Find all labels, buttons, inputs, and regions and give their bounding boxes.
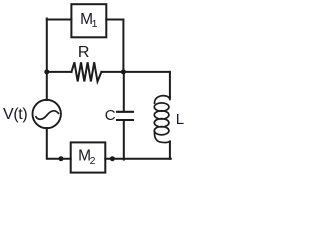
inductor L coil loop 2 [154,111,169,119]
wire bottom rail right (M2 right pin to bottom right corner) [105,158,171,160]
node B junction dot (resistor / M1 / capacitor cross) [121,69,126,74]
wire right rail upper (corner down to inductor top) [169,72,171,99]
capacitor C top plate [117,111,133,113]
inductor L bottom hook (last loop sweeping back to wire) [154,132,169,143]
wire M1 right pin to corner and down to junction node B [106,20,123,72]
node A junction dot (left rail / resistor tee) [44,69,49,74]
meter box M1 [71,4,106,37]
source V(t) sine wave [36,111,58,119]
capacitor C bottom plate [117,119,133,121]
svg-text:V(t): V(t) [3,106,27,123]
svg-text:M2: M2 [78,147,96,167]
inductor L coil loop 1 [154,103,169,111]
wire capacitor branch upper (node B down to top plate) [123,72,125,111]
svg-text:R: R [78,44,90,61]
wire top rail left (node top to M1 left pin) [47,19,72,21]
wire right rail lower (inductor bottom to bottom right corner) [169,142,171,159]
node C junction dot (bottom rail left of M2) [59,156,64,161]
inductor L coil loop 3 [154,119,169,127]
wire middle rail right (resistor right lead through node B to right corner) [101,71,169,73]
svg-text:C: C [105,107,116,124]
resistor R zigzag body [72,62,102,81]
wire capacitor branch lower (bottom plate down to bottom rail) [123,120,125,159]
svg-text:M1: M1 [80,11,98,30]
inductor L top hook (wire curling into first loop) [154,96,169,104]
meter box M2 [71,142,106,172]
inductor L coil loop 4 [154,127,169,135]
wire middle rail left (node A to resistor left lead) [47,71,72,73]
wire left rail upper (top rail corner down to source V(t) top) [46,19,48,101]
source V(t) circle [33,100,61,128]
wire left rail lower (source bottom to bottom rail corner) [47,128,71,159]
svg-text:L: L [176,111,184,128]
node D junction dot (bottom rail right of M2) [110,156,115,161]
